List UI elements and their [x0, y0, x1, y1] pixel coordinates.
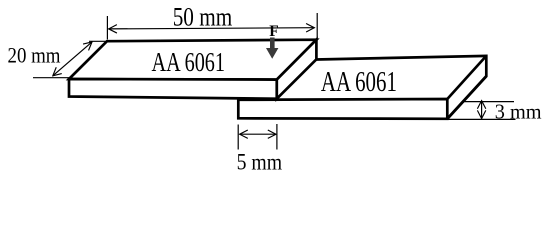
svg-text:3 mm: 3 mm: [495, 100, 542, 124]
svg-text:AA 6061: AA 6061: [321, 67, 397, 98]
svg-text:F: F: [269, 23, 278, 40]
svg-text:AA 6061: AA 6061: [152, 47, 226, 78]
svg-text:20 mm: 20 mm: [8, 42, 61, 67]
svg-text:50 mm: 50 mm: [173, 3, 233, 32]
svg-text:5 mm: 5 mm: [237, 150, 283, 175]
